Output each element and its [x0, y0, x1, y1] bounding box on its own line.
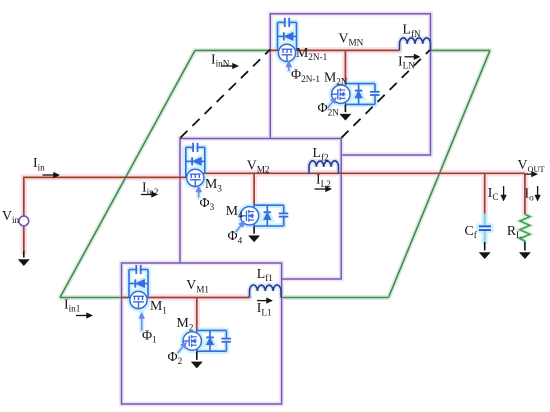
- wire phase N line through M2N-1 to LfN: [270, 49, 399, 51]
- dashed continuation line (output side): [341, 50, 429, 138]
- arrow IL2: [315, 186, 332, 192]
- wire output collection diagonal (right edge of plane): [389, 50, 491, 297]
- label phi4: [228, 228, 243, 245]
- label phi2N-1: [291, 67, 320, 84]
- wire phase 1 line through M1 to Lf1: [122, 297, 250, 299]
- label M1: [150, 298, 167, 315]
- capacitor Cf: [479, 214, 491, 243]
- label IL2: [316, 172, 331, 189]
- voltage source Vin: [19, 216, 29, 226]
- arrow gate phi2N: [328, 97, 337, 108]
- label Cf: [465, 223, 478, 240]
- arrow Iin: [43, 172, 60, 178]
- ground at M2N: [340, 105, 351, 121]
- label Iin2: [142, 180, 159, 197]
- arrow gate phi3: [196, 186, 202, 198]
- ground at M2: [191, 351, 202, 368]
- resistor RL: [520, 214, 530, 242]
- label LfN: [403, 22, 421, 39]
- label Iin1: [64, 297, 81, 314]
- label Lf2: [313, 145, 329, 162]
- wire bottom edge right segment (phase 1 output): [282, 297, 389, 299]
- label M2N-1: [296, 45, 328, 62]
- phase 2 cell boundary box: [180, 139, 341, 280]
- label M2N: [324, 69, 348, 86]
- arrow Iin1: [76, 313, 93, 319]
- transistor M2 with body diode and capacitor: [183, 330, 231, 351]
- arrow gate phi4: [236, 221, 245, 232]
- wire node VM2 down to M4: [253, 173, 255, 205]
- wire output-plane top edge (phase N output): [431, 49, 491, 51]
- label VM2: [247, 157, 270, 174]
- ground at Cf: [479, 242, 490, 259]
- phase 1 cell boundary box: [122, 263, 282, 404]
- arrow VOUT output: [525, 171, 537, 177]
- ground at M4: [249, 226, 260, 242]
- wire node VM1 down to M2: [196, 298, 198, 331]
- label phi2N: [318, 100, 340, 117]
- arrow Iin2: [141, 192, 158, 198]
- label Vin: [2, 208, 20, 225]
- ground at RL: [519, 242, 530, 259]
- transistor M2N-1 with body diode and capacitor: [278, 18, 297, 62]
- label Iin: [33, 155, 45, 172]
- inductor Lf2: [309, 161, 339, 174]
- arrow gate phi2N-1: [286, 61, 292, 71]
- label phi2: [168, 349, 183, 366]
- arrow gate phi2: [178, 342, 187, 353]
- label Lf1: [257, 266, 273, 283]
- transistor M4 with body diode and capacitor: [240, 205, 288, 226]
- phase N cell boundary box: [270, 14, 430, 155]
- transistor M1 with body diode and capacitor: [129, 265, 148, 309]
- arrow Io: [535, 186, 541, 201]
- wire input-plane top edge (phase N input): [195, 49, 270, 51]
- label M4: [226, 203, 243, 220]
- wire VOUT down to Cf: [484, 173, 486, 213]
- label M3: [205, 176, 222, 193]
- label Io: [525, 185, 535, 202]
- label IinN: [211, 51, 230, 68]
- wire bottom edge left segment (phase 1 input): [60, 297, 122, 299]
- label phi1: [142, 328, 157, 345]
- inductor Lf1: [250, 285, 282, 298]
- transistor M3 with body diode and capacitor: [186, 143, 205, 187]
- inductor LfN: [400, 38, 431, 51]
- label RL: [507, 223, 522, 240]
- label IL1: [257, 300, 272, 317]
- label phi3: [200, 195, 215, 212]
- label IC: [488, 185, 499, 202]
- ground at Vin: [18, 251, 29, 266]
- label VOUT: [518, 157, 545, 174]
- arrow IinN: [221, 63, 239, 69]
- wire node VMN down to M2N: [344, 50, 346, 84]
- wire output rail VM2 to VOUT: [199, 172, 525, 174]
- label M2: [177, 315, 194, 332]
- wire VOUT down to RL: [524, 173, 526, 214]
- transistor M2N with body diode and capacitor: [332, 84, 380, 105]
- wire Vin to ground: [23, 226, 25, 253]
- arrow IL1: [257, 298, 273, 304]
- arrow gate phi1: [139, 313, 145, 331]
- label VM1: [186, 277, 209, 294]
- label ILN: [398, 53, 415, 70]
- wire input rail from Vin: [24, 177, 191, 216]
- label VMN: [339, 30, 364, 47]
- wire input distribution diagonal (left edge of plane): [60, 50, 195, 297]
- arrow IC: [501, 186, 507, 201]
- arrow ILN: [405, 54, 421, 60]
- dashed continuation line (input side): [180, 49, 270, 138]
